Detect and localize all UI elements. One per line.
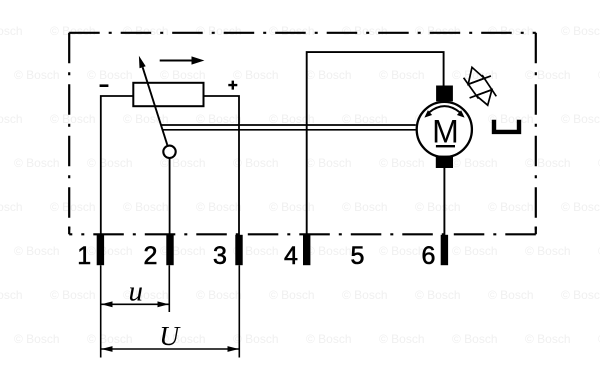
- bracket symbol (holder): [494, 120, 519, 132]
- wiper pivot: [163, 146, 175, 158]
- svg-text:5: 5: [351, 242, 365, 270]
- interference suppressor (crossed bowtie symbol): [464, 67, 497, 105]
- svg-text:u: u: [129, 276, 144, 308]
- terminal 1: [77, 235, 104, 270]
- svg-text:3: 3: [213, 242, 227, 270]
- terminal 2: [144, 235, 174, 270]
- potentiometer wiper arm with arrow: [139, 56, 167, 145]
- terminal 4: [284, 235, 310, 270]
- enclosure boundary (housing outline, dash-dot): [69, 33, 536, 235]
- svg-text:1: 1: [77, 242, 91, 270]
- label minus: [100, 84, 109, 87]
- wire: double line from wiper to motor: [161, 125, 415, 130]
- svg-text:M: M: [432, 114, 459, 150]
- dimension u (terminal 1 to terminal 2): [101, 265, 170, 357]
- wire: resistor left end to terminal 1: [101, 96, 134, 236]
- svg-text:4: 4: [284, 242, 298, 270]
- svg-text:6: 6: [422, 242, 436, 270]
- svg-text:U: U: [159, 320, 181, 351]
- dimension U (terminal 1 to terminal 3): [101, 265, 239, 357]
- wire: wiper pivot to terminal 2: [169, 158, 171, 236]
- resistor R (potentiometer track): [133, 83, 203, 106]
- terminal 3: [213, 235, 243, 270]
- terminal 6: [422, 235, 449, 270]
- wire: resistor right end to terminal 3: [204, 96, 240, 236]
- direction arrow above resistor: [160, 56, 205, 64]
- terminal 5: [351, 242, 365, 270]
- wire: motor bottom brush to terminal 6: [443, 167, 445, 236]
- wire: terminal 4 up and over to motor top brush: [307, 52, 444, 236]
- motor U1 (M): [417, 86, 472, 169]
- label plus: [228, 81, 237, 90]
- svg-text:2: 2: [144, 242, 158, 270]
